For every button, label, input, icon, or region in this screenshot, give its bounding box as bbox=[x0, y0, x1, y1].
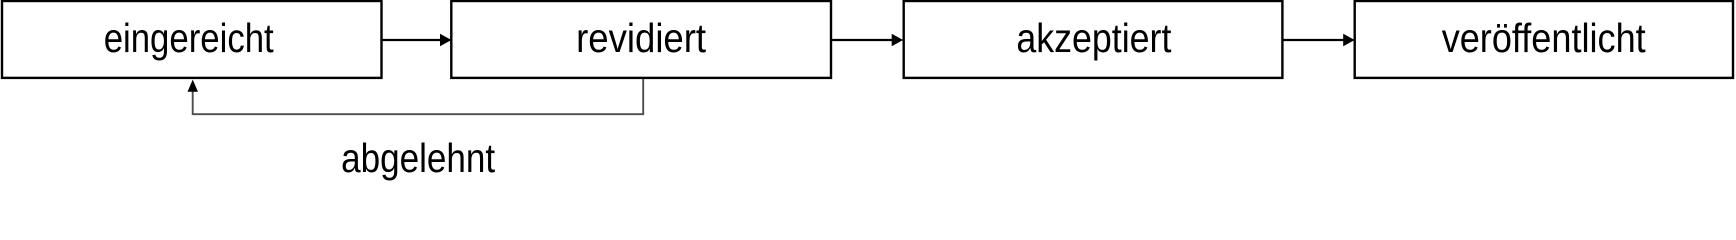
arrow akzeptiert -> veröffentlicht bbox=[1282, 34, 1354, 47]
svg-text:eingereicht: eingereicht bbox=[104, 15, 275, 61]
state box "veröffentlicht" bbox=[1355, 1, 1733, 78]
svg-text:revidiert: revidiert bbox=[576, 15, 707, 61]
state box "revidiert" bbox=[451, 1, 831, 78]
svg-text:veröffentlicht: veröffentlicht bbox=[1442, 15, 1647, 61]
svg-text:akzeptiert: akzeptiert bbox=[1016, 15, 1172, 61]
state box "eingereicht" bbox=[2, 1, 382, 78]
feedback loop revidiert -> eingereicht (abgelehnt) bbox=[188, 79, 644, 114]
arrow revidiert -> akzeptiert bbox=[831, 34, 903, 47]
svg-text:abgelehnt: abgelehnt bbox=[341, 135, 496, 181]
state box "akzeptiert" bbox=[904, 1, 1283, 78]
arrow eingereicht -> revidiert bbox=[383, 34, 452, 47]
